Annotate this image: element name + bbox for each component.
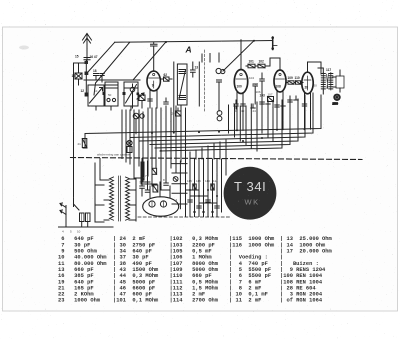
diode arrow component: [137, 93, 144, 99]
stacked trimmer circles: [217, 111, 222, 121]
pilot lamp pair: [133, 113, 144, 134]
junction blobs boxes: [103, 92, 140, 95]
under-tube component row: [148, 95, 307, 109]
bottom dashed line: [138, 216, 230, 218]
resistor 109: [287, 81, 295, 84]
under-dash stub wires: [190, 159, 226, 217]
tuning box 2: [105, 82, 118, 106]
bus wire 2: [130, 93, 313, 138]
resistor 102: [255, 64, 270, 68]
tuning box 1: [88, 85, 104, 106]
rectifier tube 3: [143, 197, 179, 216]
tube 108: [274, 70, 286, 92]
mains plug arrows: [60, 203, 66, 217]
blob component 16: [85, 61, 89, 64]
antenna: [83, 34, 92, 64]
gang diagonal wire 2: [94, 43, 130, 96]
top antenna rail wire: [115, 41, 273, 43]
resistor 118: [152, 168, 157, 174]
padder trimmer circles: [216, 68, 225, 111]
capacitor 16 (antenna series): [84, 58, 90, 60]
parts table column 2: [113, 236, 159, 304]
lamp left of tube 9: [130, 84, 135, 108]
bus wire 6: [160, 100, 282, 151]
left rail wire: [73, 63, 75, 204]
bottom return wire: [59, 217, 114, 228]
gang diagonal wire 1: [87, 42, 115, 73]
capacitor 13: [191, 62, 196, 77]
power transformer secondary winding: [126, 177, 130, 220]
output transformer 117: [318, 68, 344, 94]
rail junction A: [165, 41, 167, 43]
tube 28: [302, 72, 313, 94]
tube 9: [147, 71, 160, 91]
left return bend wires: [134, 159, 187, 217]
right step wires: [172, 161, 187, 209]
mid stub wires: [229, 102, 274, 151]
tube 28 cathode wires: [305, 94, 311, 130]
wire: [198, 62, 200, 106]
trimmer electrode at rail end: [271, 37, 277, 50]
power transformer primary winding: [110, 177, 114, 220]
tube 9 cathode wires: [150, 90, 157, 108]
parts table column 1: [58, 236, 107, 304]
transformer tap wires: [95, 159, 136, 223]
shield dashed line: [204, 50, 206, 111]
extra comb stub wires: [126, 134, 226, 169]
capacitor 7: [140, 159, 145, 197]
fuse 2: [86, 213, 91, 222]
gang diagonal wire 3: [133, 42, 166, 80]
capacitor 11: [164, 159, 169, 186]
parts table column 5: [280, 236, 333, 304]
capacitor 18b: [100, 74, 104, 83]
mid rail wire: [173, 62, 175, 133]
rail junction B: [253, 40, 255, 42]
parts table column 4: [229, 236, 275, 304]
bus wire 3: [140, 95, 305, 141]
bus wire 1: [83, 95, 321, 148]
capacitor 103: [260, 73, 265, 104]
switch contact component: [176, 108, 182, 116]
smudge: [19, 46, 29, 50]
wire junction dots: [151, 128, 306, 152]
tube 9 grid lead wire: [151, 43, 158, 71]
comb vertical wires: [122, 106, 186, 159]
mains switch wire: [74, 204, 80, 210]
nested return rectangles: [141, 162, 157, 184]
fuse 1: [80, 213, 85, 222]
lamp component: [173, 177, 178, 182]
tube 100 anode lead: [240, 40, 242, 70]
switch box component: [139, 95, 145, 108]
bus wire 4: [150, 99, 298, 145]
wire to tube 108 top: [270, 58, 280, 70]
logo circle T341 WK: [224, 167, 277, 220]
parts table column 3: [170, 236, 219, 304]
blob component 36: [85, 72, 89, 76]
filter junction dots: [189, 189, 218, 213]
resistor 62: [161, 77, 172, 81]
tube 28 anode wire: [308, 62, 322, 74]
capacitor 105: [253, 84, 258, 104]
filter grid resistors: [193, 184, 214, 190]
power transformer core: [119, 176, 121, 221]
resistor 16: [75, 63, 82, 85]
wire over boxes: [84, 80, 140, 110]
capacitor 18: [94, 74, 99, 81]
IF transformer box: [177, 64, 187, 105]
filter grid caps: [188, 200, 219, 208]
speaker: [333, 94, 340, 101]
wire antenna column: [85, 60, 87, 95]
rail stub wires: [202, 53, 219, 62]
filter grid links: [186, 190, 218, 203]
capacitor 8: [145, 161, 150, 192]
tuning box 3: [124, 82, 138, 106]
resistor 107: [268, 97, 274, 102]
junction node 12: [85, 93, 89, 97]
bus wire 5: [155, 99, 290, 148]
gang diagonal wire 4: [223, 41, 254, 71]
wire antenna to left rail: [74, 62, 88, 64]
tube 108 cathode wires: [277, 92, 283, 130]
speaker annotation: [333, 103, 339, 106]
resistor 119: [153, 185, 158, 192]
chassis dashed line: [71, 158, 363, 160]
rectifier lead wires: [150, 182, 170, 198]
resistor 110: [294, 81, 303, 84]
dial lamp 77: [127, 140, 132, 152]
resistor 21: [82, 139, 87, 148]
resistor 101: [246, 64, 255, 68]
tube 100 cathode wires: [237, 93, 243, 131]
tube 100: [234, 70, 247, 94]
